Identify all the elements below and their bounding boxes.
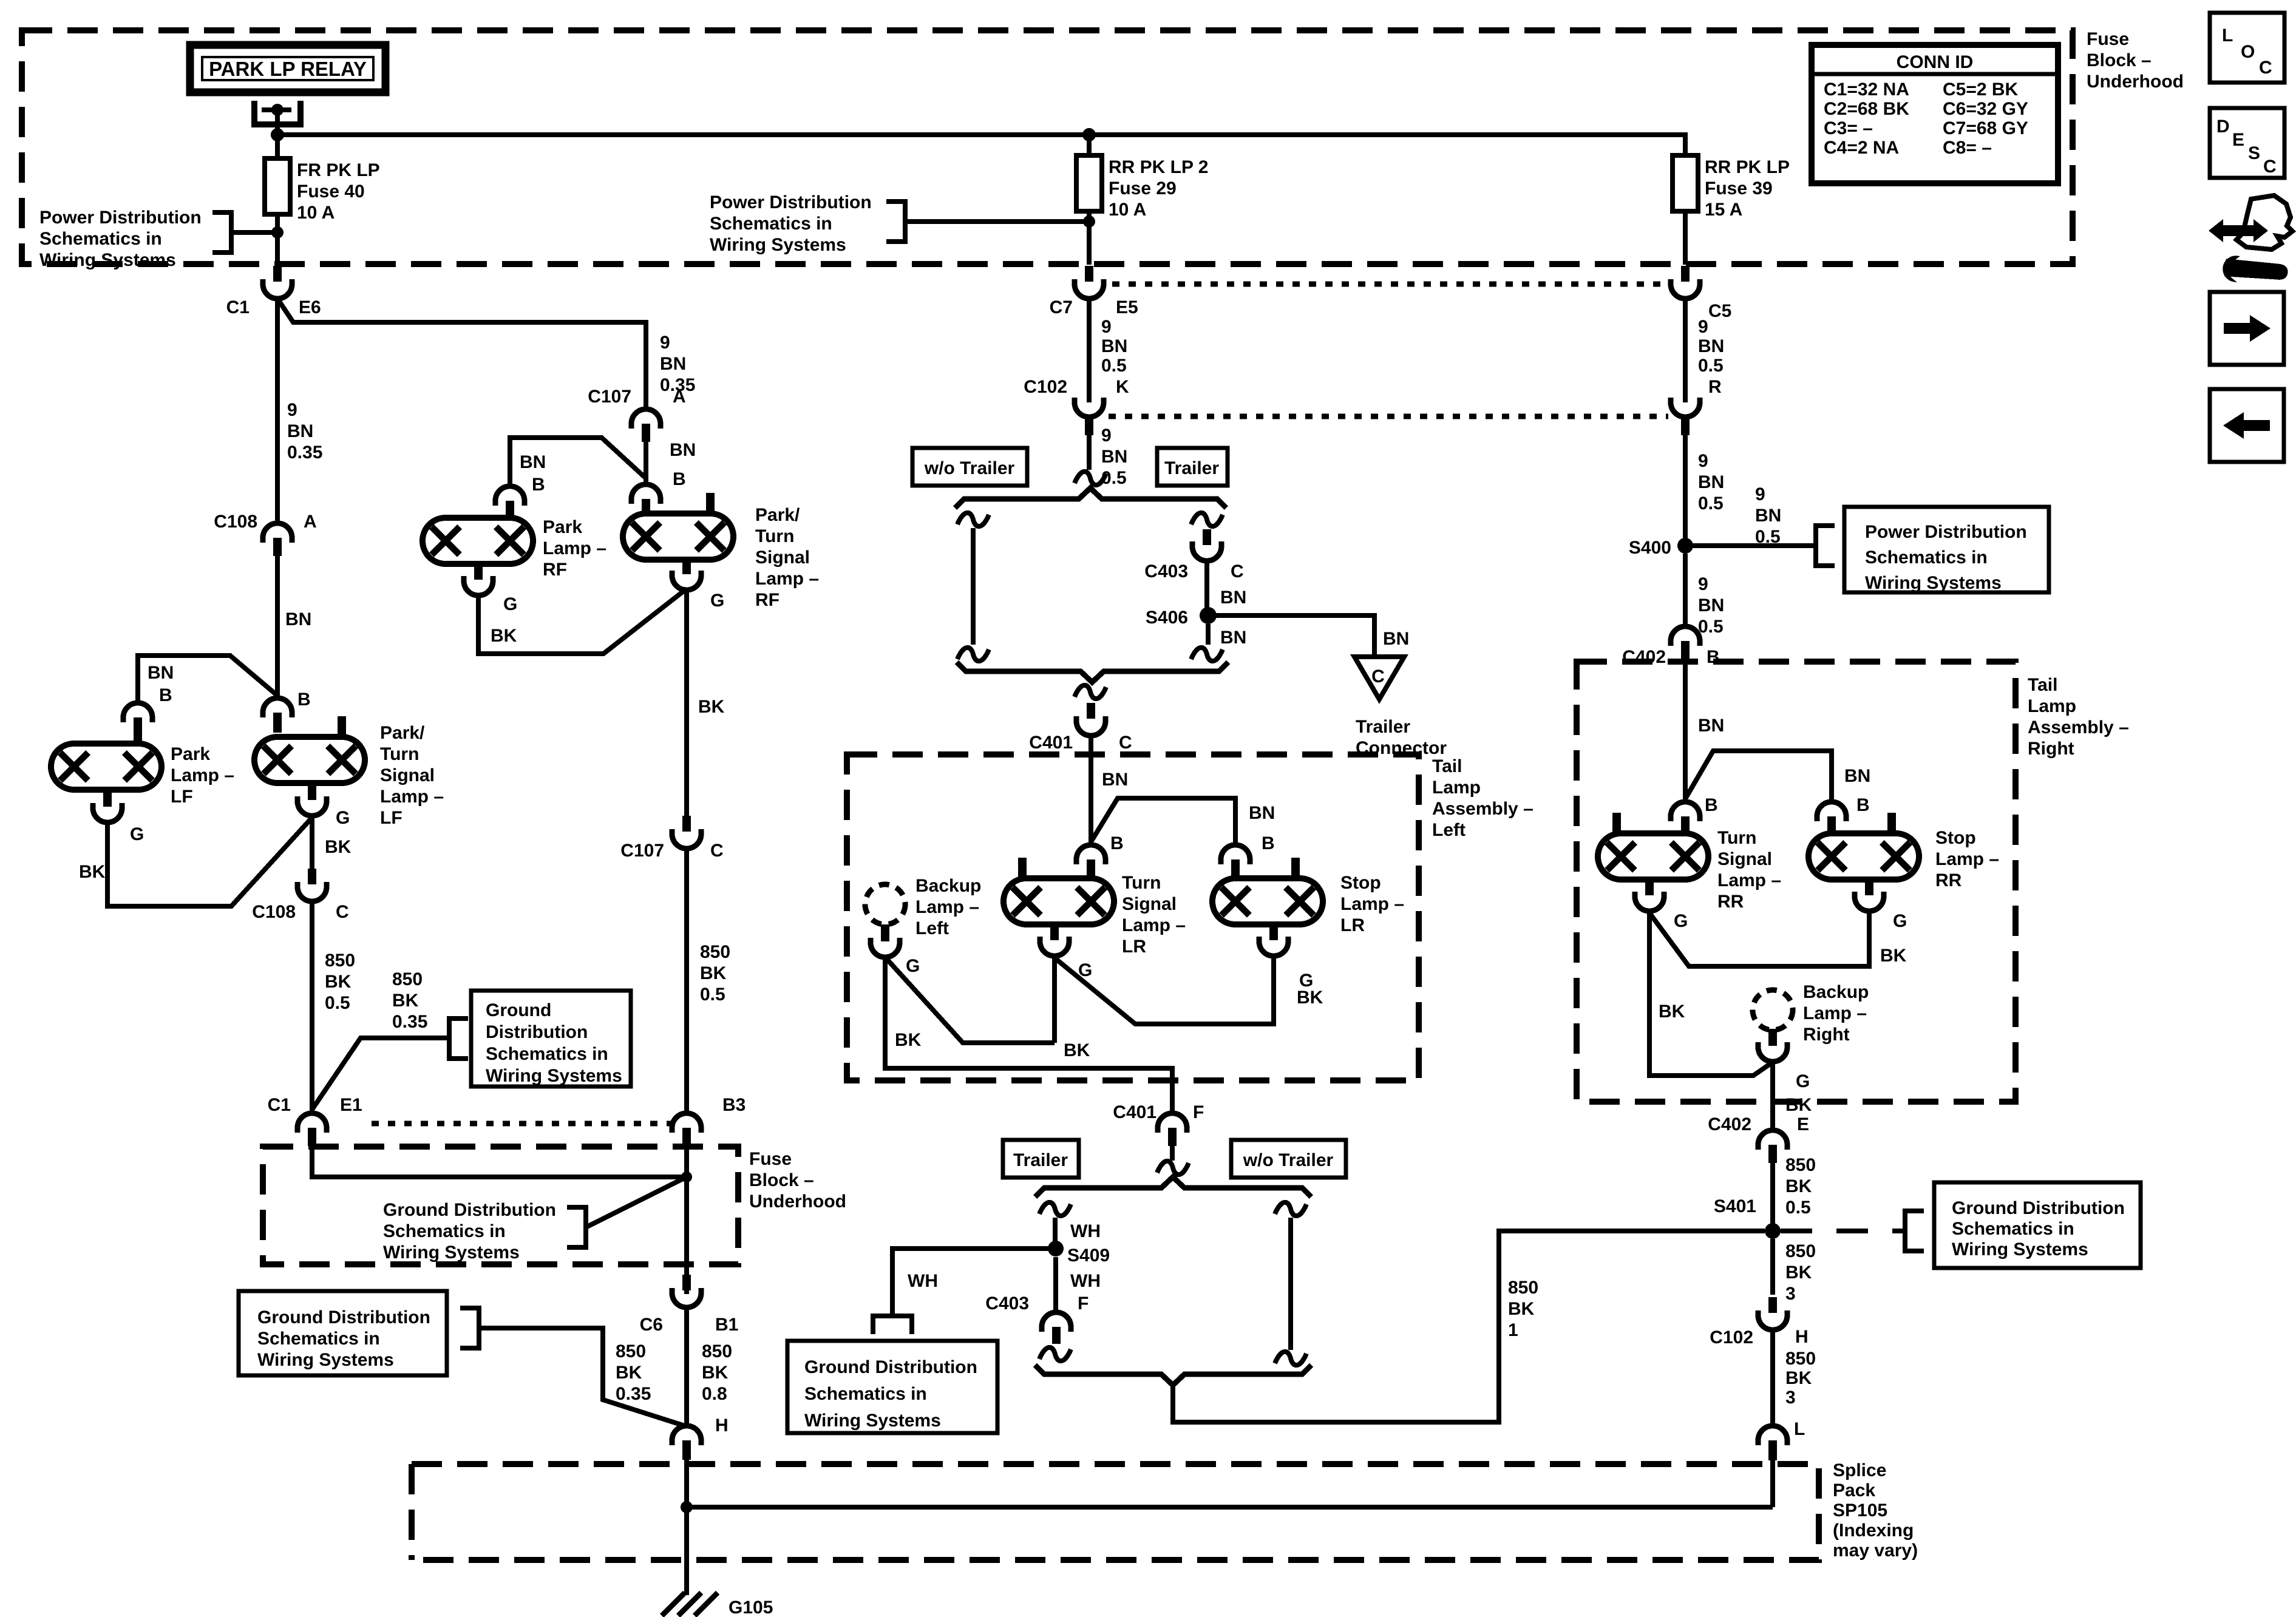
svg-text:Assembly –: Assembly –: [2028, 717, 2129, 737]
svg-text:BK: BK: [1508, 1299, 1535, 1319]
connector backup left G: [871, 924, 900, 957]
svg-text:B: B: [673, 469, 686, 489]
splice S406: [1200, 607, 1217, 624]
dotted connector line C1/B3: [372, 1121, 673, 1127]
svg-text:PARK LP RELAY: PARK LP RELAY: [209, 58, 367, 80]
wire C107C to B3: [684, 849, 689, 1113]
icon left arrow box: [2210, 389, 2284, 462]
wire break symbol: [1075, 472, 1106, 485]
svg-text:850: 850: [1785, 1349, 1816, 1369]
svg-text:H: H: [1795, 1327, 1809, 1347]
pointer bracket ground dist LF: [449, 1019, 468, 1059]
wire S400 to power dist: [1685, 543, 1816, 548]
CONN ID table: [1812, 45, 2058, 183]
terminal stub park/turn RF: [706, 493, 715, 514]
svg-text:BN: BN: [1102, 770, 1128, 790]
svg-text:E5: E5: [1116, 297, 1138, 317]
svg-text:Lamp –: Lamp –: [1935, 849, 1999, 869]
svg-text:Fuse 39: Fuse 39: [1705, 178, 1773, 198]
svg-text:G: G: [1893, 911, 1907, 931]
option brace top: [955, 488, 1226, 508]
svg-text:BN: BN: [670, 440, 696, 460]
svg-text:E6: E6: [299, 297, 321, 317]
svg-text:C6=32 GY: C6=32 GY: [1943, 99, 2028, 119]
svg-text:B: B: [532, 475, 545, 495]
connector park RF G: [464, 563, 493, 595]
connector C107 cavity C: [672, 816, 701, 849]
svg-text:RR PK LP: RR PK LP: [1705, 157, 1790, 177]
wire C402E to S401: [1770, 1163, 1775, 1231]
wire H to G105: [684, 1460, 689, 1595]
lamp park lamp LF: [51, 744, 161, 790]
svg-text:C: C: [1231, 561, 1244, 581]
svg-text:C6: C6: [640, 1315, 663, 1335]
svg-text:Lamp –: Lamp –: [171, 765, 234, 785]
svg-text:F: F: [1078, 1293, 1089, 1314]
label box ground distribution (right): [1934, 1182, 2141, 1268]
svg-text:Wiring Systems: Wiring Systems: [804, 1411, 941, 1431]
svg-text:BN: BN: [520, 452, 546, 472]
option brace lower bottom: [1035, 1365, 1311, 1385]
wire C102K down: [1087, 433, 1092, 470]
svg-text:RR: RR: [1935, 870, 1962, 890]
svg-text:Power Distribution: Power Distribution: [710, 192, 872, 212]
svg-text:0.5: 0.5: [1698, 356, 1724, 376]
svg-text:Pack: Pack: [1833, 1480, 1875, 1500]
svg-text:S409: S409: [1067, 1246, 1110, 1266]
wire w/o trailer branch: [971, 528, 976, 645]
svg-text:Signal: Signal: [1717, 849, 1772, 869]
connector stop RR G: [1855, 878, 1884, 911]
svg-text:RF: RF: [755, 590, 779, 610]
option box Trailer (lower): [1003, 1140, 1079, 1178]
connector park/turn LF G: [297, 783, 327, 816]
svg-text:Splice: Splice: [1833, 1460, 1886, 1480]
wire relay to bus: [275, 110, 280, 135]
connector stop LR G: [1259, 923, 1288, 956]
svg-text:BN: BN: [1249, 803, 1275, 823]
svg-text:Ground: Ground: [486, 1000, 551, 1020]
wire turn LR ground down: [1052, 956, 1057, 1043]
svg-text:C402: C402: [1708, 1114, 1751, 1134]
svg-text:B: B: [1110, 833, 1124, 853]
terminal stub turn RR: [1612, 813, 1621, 833]
svg-text:0.5: 0.5: [325, 993, 350, 1013]
wire branch to park lamp RF: [510, 438, 646, 486]
terminal stub stop LR: [1291, 858, 1300, 878]
wire C5 to C102R: [1683, 299, 1688, 402]
pointer bracket ground dist inner: [567, 1207, 586, 1247]
terminal stop RR ground: [1865, 880, 1873, 895]
wire S409 to ground dist: [892, 1249, 1056, 1316]
svg-text:9: 9: [1698, 451, 1708, 471]
connector C102 cavity K: [1075, 398, 1104, 435]
svg-text:BK: BK: [1785, 1176, 1812, 1196]
lamp stop lamp LR: [1212, 878, 1323, 924]
svg-text:850: 850: [392, 969, 423, 989]
svg-text:BN: BN: [287, 421, 313, 441]
svg-text:Tail: Tail: [1432, 756, 1462, 776]
svg-text:SP105: SP105: [1833, 1500, 1887, 1520]
svg-text:0.5: 0.5: [1698, 617, 1724, 637]
svg-text:BK: BK: [491, 626, 517, 646]
svg-text:BK: BK: [79, 862, 106, 882]
svg-text:A: A: [304, 512, 317, 532]
svg-text:Schematics in: Schematics in: [486, 1044, 608, 1064]
svg-text:C1: C1: [268, 1095, 291, 1115]
wire C107A down: [644, 442, 648, 487]
icon hand/wrench: [2209, 195, 2292, 281]
svg-text:Wiring Systems: Wiring Systems: [383, 1242, 520, 1263]
svg-text:C: C: [710, 841, 724, 861]
pointer bracket ground dist right: [1905, 1211, 1924, 1251]
connector C7 (fuse block E5): [1075, 266, 1104, 299]
svg-text:C5=2 BK: C5=2 BK: [1943, 80, 2019, 100]
wire stop RR ground link: [1649, 912, 1869, 966]
svg-text:0.35: 0.35: [287, 442, 322, 463]
icon DESC box: [2210, 108, 2284, 178]
svg-text:Wiring Systems: Wiring Systems: [486, 1066, 622, 1086]
fuse block underhood dashed box: [22, 30, 2073, 264]
svg-text:BK: BK: [325, 837, 352, 857]
connector turn signal LR terminal B: [1076, 845, 1106, 878]
svg-text:Wiring Systems: Wiring Systems: [39, 250, 176, 270]
icon right arrow box: [2210, 292, 2284, 365]
svg-text:0.5: 0.5: [1785, 1198, 1811, 1218]
svg-text:9: 9: [287, 400, 297, 420]
trailer connector triangle: [1354, 657, 1404, 699]
svg-text:850: 850: [325, 951, 355, 971]
dotted connector line C102 K/R: [1109, 414, 1668, 419]
svg-text:Trailer: Trailer: [1013, 1150, 1068, 1170]
svg-text:B: B: [297, 690, 311, 710]
svg-text:Signal: Signal: [380, 765, 435, 785]
svg-text:WH: WH: [1070, 1271, 1101, 1291]
wire C102L to ground bus: [1770, 1460, 1775, 1507]
wire C401C to turn lamp LR: [1089, 736, 1093, 845]
svg-text:BK: BK: [698, 697, 725, 717]
svg-text:WH: WH: [908, 1271, 938, 1291]
svg-text:BN: BN: [285, 609, 311, 629]
svg-text:0.35: 0.35: [392, 1012, 427, 1032]
wire C108A down: [275, 556, 280, 699]
terminal turn LR ground: [1050, 924, 1059, 940]
wire break symbol: [1039, 1347, 1071, 1361]
fuse block underhood dashed box 2: [263, 1147, 738, 1264]
svg-text:850: 850: [1785, 1241, 1816, 1261]
svg-text:C7=68 GY: C7=68 GY: [1943, 118, 2028, 138]
icon LOC box: [2210, 13, 2284, 83]
svg-text:0.5: 0.5: [1755, 527, 1781, 547]
svg-text:WH: WH: [1070, 1221, 1101, 1241]
svg-text:Lamp: Lamp: [2028, 696, 2076, 716]
svg-text:RF: RF: [543, 560, 567, 580]
wire turn RR ground down: [1649, 911, 1773, 1076]
wire break symbol: [957, 648, 989, 661]
svg-text:0.35: 0.35: [616, 1384, 651, 1404]
svg-text:C102: C102: [1024, 377, 1067, 397]
connector turn signal RR terminal B: [1671, 802, 1700, 832]
terminal backup lamp right: [1768, 1030, 1777, 1046]
svg-text:S400: S400: [1629, 538, 1671, 558]
connector stop lamp RR terminal B: [1817, 802, 1846, 832]
svg-text:Lamp: Lamp: [1432, 778, 1481, 798]
svg-text:Backup: Backup: [1803, 982, 1869, 1002]
fuse F29 RR PK LP 2: [1076, 155, 1102, 211]
svg-text:9: 9: [1101, 425, 1112, 446]
wire E6 branch to C107: [277, 299, 646, 409]
fuse F39 RR PK LP: [1673, 155, 1698, 211]
label box power distribution (right): [1844, 507, 2049, 592]
svg-text:BN: BN: [1220, 588, 1246, 608]
svg-text:B: B: [1856, 795, 1870, 815]
svg-text:G: G: [1674, 911, 1688, 931]
connector park/turn LF terminal B: [263, 698, 292, 733]
svg-text:RR: RR: [1717, 892, 1744, 912]
connector C1 cavity E1: [297, 1113, 327, 1146]
svg-text:Turn: Turn: [1122, 873, 1161, 893]
splice pack SP105 dashed box: [412, 1464, 1819, 1560]
backup lamp left dashed circle: [865, 884, 905, 924]
terminal park lamp LF ground: [103, 790, 112, 807]
svg-text:BK: BK: [895, 1030, 922, 1050]
svg-text:Schematics in: Schematics in: [1865, 547, 1988, 568]
svg-text:E1: E1: [340, 1095, 362, 1115]
svg-text:G: G: [336, 808, 350, 828]
svg-text:BK: BK: [1785, 1095, 1812, 1115]
svg-text:Backup: Backup: [915, 876, 981, 896]
svg-text:10 A: 10 A: [1109, 200, 1146, 220]
svg-text:LR: LR: [1340, 915, 1365, 935]
svg-text:Stop: Stop: [1935, 828, 1976, 848]
svg-text:850: 850: [700, 942, 730, 962]
svg-text:BN: BN: [1101, 336, 1127, 356]
svg-text:C: C: [336, 902, 349, 922]
wire C402B to turn RR: [1683, 659, 1688, 802]
svg-text:G: G: [710, 591, 724, 611]
wire park/turn RF ground to C107C: [684, 590, 689, 817]
svg-text:C107: C107: [588, 387, 631, 407]
wire break symbol: [957, 513, 989, 526]
svg-text:850: 850: [1785, 1155, 1816, 1175]
svg-text:S401: S401: [1714, 1196, 1756, 1216]
terminal park/turn RF ground: [682, 560, 691, 574]
svg-text:10 A: 10 A: [297, 203, 335, 223]
svg-text:BN: BN: [1101, 447, 1127, 467]
svg-text:BK: BK: [1785, 1263, 1812, 1283]
svg-text:C107: C107: [620, 841, 664, 861]
svg-text:Wiring Systems: Wiring Systems: [710, 235, 846, 255]
svg-text:9: 9: [660, 333, 670, 353]
wire C403C to S406: [1204, 561, 1209, 608]
svg-text:R: R: [1708, 377, 1722, 397]
svg-text:Ground Distribution: Ground Distribution: [257, 1307, 430, 1327]
relay contact: [254, 101, 301, 124]
svg-text:LR: LR: [1122, 937, 1146, 957]
svg-text:CONN ID: CONN ID: [1897, 52, 1974, 72]
connector fuse block B3: [672, 1113, 701, 1146]
node fuse29/power dist junction: [1083, 215, 1095, 228]
wire break symbol: [1039, 1202, 1071, 1216]
svg-text:Power Distribution: Power Distribution: [1865, 522, 2027, 542]
svg-text:Schematics in: Schematics in: [257, 1329, 380, 1349]
svg-text:K: K: [1116, 377, 1129, 397]
wire S406 to trailer connector: [1208, 615, 1374, 657]
wire bracket to fuse40 wire: [231, 230, 277, 235]
svg-text:C: C: [1119, 733, 1132, 753]
option brace bottom: [957, 662, 1228, 682]
wire top bus: [277, 135, 1685, 155]
svg-text:Wiring Systems: Wiring Systems: [257, 1350, 394, 1370]
connector C401 cavity F: [1158, 1113, 1187, 1146]
svg-text:BN: BN: [1755, 506, 1781, 526]
wire B1 to H: [684, 1307, 689, 1426]
label box ground distribution (upper left): [471, 991, 631, 1086]
svg-text:C108: C108: [252, 902, 296, 922]
node bus junction at relay: [271, 128, 284, 141]
svg-text:Fuse: Fuse: [2087, 29, 2129, 49]
svg-text:S: S: [2248, 143, 2260, 163]
svg-text:C2=68 BK: C2=68 BK: [1824, 99, 1909, 119]
svg-text:D: D: [2216, 117, 2230, 137]
terminal stub stop RR: [1887, 813, 1896, 833]
connector park LF G: [93, 790, 122, 822]
svg-text:Lamp –: Lamp –: [1717, 870, 1781, 890]
wire bracket diagonal to B3 node: [586, 1177, 687, 1227]
svg-text:0.5: 0.5: [1101, 356, 1127, 376]
svg-text:Assembly –: Assembly –: [1432, 799, 1533, 819]
svg-text:L: L: [1794, 1419, 1805, 1439]
wire C7 to C102K: [1087, 299, 1092, 402]
svg-text:Lamp –: Lamp –: [1803, 1003, 1867, 1023]
svg-text:Left: Left: [915, 918, 949, 938]
connector C107 cavity A: [631, 409, 661, 442]
svg-text:Signal: Signal: [755, 547, 810, 568]
lamp turn signal lamp RR: [1598, 833, 1708, 880]
wire C401F down: [1170, 1146, 1175, 1161]
svg-text:Turn: Turn: [755, 526, 794, 546]
pointer bracket power dist left: [212, 212, 231, 253]
svg-text:Underhood: Underhood: [2087, 72, 2184, 92]
svg-text:C403: C403: [1144, 561, 1188, 581]
wire branch to stop RR: [1685, 751, 1832, 802]
svg-text:Right: Right: [1803, 1025, 1850, 1045]
connector C403 cavity C: [1192, 529, 1221, 561]
svg-text:BK: BK: [1880, 946, 1907, 966]
lamp park/turn signal lamp RF: [623, 514, 733, 560]
svg-text:C403: C403: [985, 1293, 1029, 1314]
connector C108 cavity C: [297, 869, 327, 901]
svg-text:Tail: Tail: [2028, 675, 2057, 695]
svg-text:Trailer: Trailer: [1164, 458, 1219, 478]
svg-text:9: 9: [1698, 574, 1708, 594]
svg-text:Ground Distribution: Ground Distribution: [1952, 1198, 2125, 1218]
splice S400: [1677, 538, 1693, 554]
svg-text:O: O: [2241, 42, 2255, 62]
svg-text:C8= –: C8= –: [1943, 138, 1992, 158]
svg-text:3: 3: [1785, 1388, 1796, 1408]
connector C102 cavity R: [1671, 398, 1700, 435]
svg-text:E: E: [1797, 1114, 1809, 1134]
svg-text:BK: BK: [1297, 988, 1323, 1008]
lamp park lamp RF: [423, 518, 533, 564]
wire park LF ground: [107, 818, 312, 906]
wire break symbol: [1275, 1202, 1306, 1216]
svg-text:E: E: [2232, 130, 2244, 150]
wire backup left diagonal: [885, 957, 1055, 1043]
svg-text:0.5: 0.5: [1698, 493, 1724, 514]
option box w/o Trailer: [912, 448, 1027, 486]
connector C402 cavity B: [1671, 626, 1700, 659]
svg-text:BK: BK: [1064, 1040, 1090, 1060]
svg-text:BN: BN: [1844, 766, 1870, 786]
svg-text:BK: BK: [1659, 1002, 1685, 1022]
svg-text:C4=2 NA: C4=2 NA: [1824, 138, 1899, 158]
svg-text:G105: G105: [729, 1598, 773, 1617]
backup lamp right dashed circle: [1753, 990, 1793, 1030]
wire bus to fuse29: [1087, 135, 1092, 155]
label box ground distribution (trailer): [787, 1341, 997, 1433]
svg-text:C: C: [2263, 157, 2277, 177]
wire break symbol: [1191, 513, 1223, 526]
connector C5 (fuse block): [1671, 266, 1700, 299]
dotted connector line C7/C5: [1112, 282, 1668, 287]
svg-text:Fuse 29: Fuse 29: [1109, 178, 1177, 198]
svg-text:0.5: 0.5: [700, 985, 725, 1005]
dashed wire S401 to ground dist: [1781, 1229, 1905, 1233]
svg-text:G: G: [1796, 1071, 1810, 1091]
svg-text:H: H: [715, 1415, 729, 1436]
svg-text:850: 850: [1508, 1278, 1538, 1298]
svg-text:C401: C401: [1113, 1102, 1156, 1122]
svg-text:C: C: [1371, 666, 1385, 686]
svg-text:L: L: [2222, 25, 2233, 46]
wire ground dist to H: [479, 1328, 687, 1426]
ground bus to splice pack: [687, 1505, 1773, 1510]
tail lamp assembly left dashed box: [847, 754, 1419, 1080]
svg-text:Block –: Block –: [749, 1170, 814, 1190]
ground G105: [662, 1593, 718, 1616]
lamp stop lamp RR: [1809, 833, 1919, 880]
svg-text:FR PK LP: FR PK LP: [297, 160, 380, 180]
svg-text:S406: S406: [1146, 608, 1188, 628]
svg-text:Lamp –: Lamp –: [1122, 915, 1186, 935]
label box ground distribution (lower left): [239, 1291, 447, 1375]
connector C403 cavity F: [1042, 1312, 1071, 1344]
svg-text:C5: C5: [1708, 301, 1731, 321]
terminal park lamp RF ground: [474, 564, 483, 580]
connector stop lamp LR terminal B: [1221, 845, 1250, 878]
wire bracket to fuse29 wire: [905, 219, 1089, 224]
terminal stub turn LR: [1018, 858, 1027, 878]
svg-text:LF: LF: [171, 787, 193, 807]
terminal park/turn LF ground: [308, 783, 316, 800]
svg-text:B3: B3: [722, 1095, 746, 1115]
svg-text:3: 3: [1785, 1284, 1796, 1304]
wire relay to fuse40: [275, 135, 280, 158]
svg-text:w/o Trailer: w/o Trailer: [924, 458, 1015, 478]
ground distribution stub symbol: [873, 1316, 912, 1334]
connector turn LR G: [1040, 923, 1069, 956]
relay K: PARK LP RELAY label box: [190, 45, 385, 92]
terminal stop LR ground: [1269, 924, 1278, 940]
svg-text:Ground Distribution: Ground Distribution: [383, 1200, 556, 1220]
svg-text:BK: BK: [702, 1363, 729, 1383]
svg-text:Lamp –: Lamp –: [1340, 894, 1404, 914]
svg-text:Schematics in: Schematics in: [804, 1384, 927, 1404]
svg-text:Turn: Turn: [380, 744, 419, 764]
svg-text:Park: Park: [171, 744, 210, 764]
